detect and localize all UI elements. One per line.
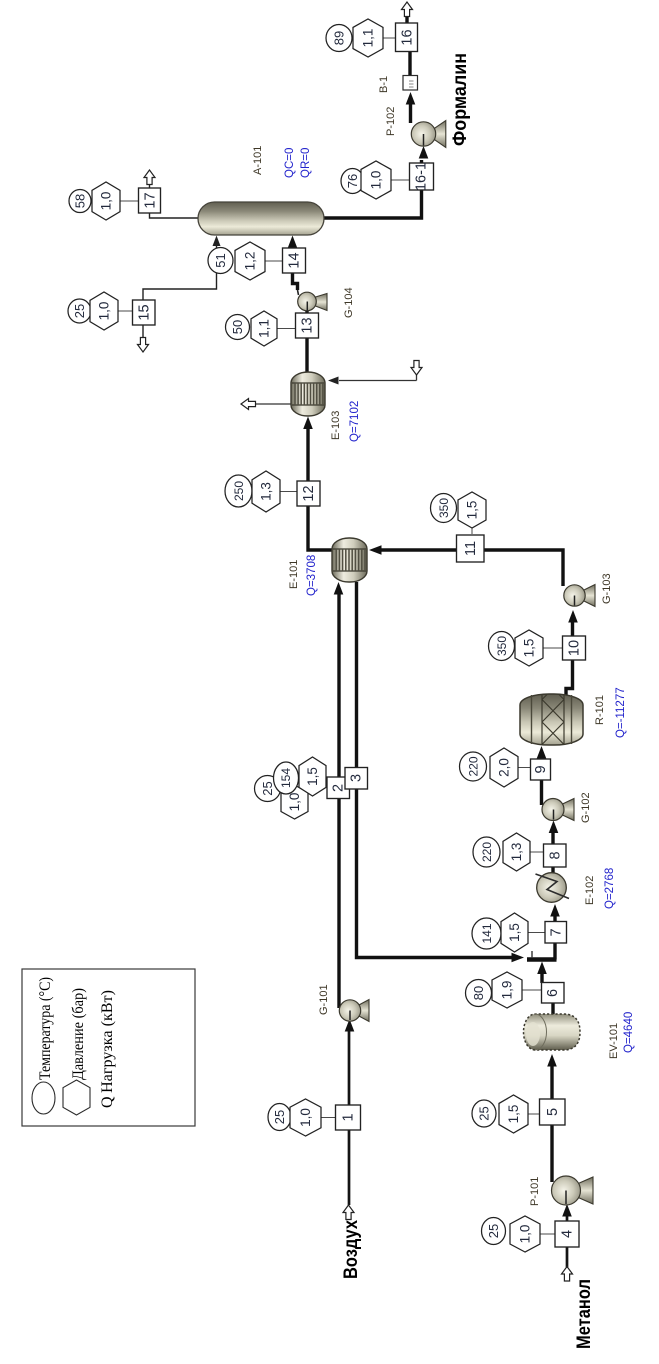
pressure hexagon 2,0 (stream 9): [490, 748, 518, 787]
wire: stream to G-102 after E-102: [549, 821, 559, 875]
svg-text:1: 1: [341, 1113, 357, 1121]
wire: stream 10 R-101 to G-103: [566, 610, 578, 695]
svg-text:Q=4640: Q=4640: [623, 1012, 635, 1053]
wire: stream 15 reflux into column: [143, 236, 221, 301]
svg-text:51: 51: [213, 253, 228, 267]
pump G-104: [298, 292, 327, 311]
svg-text:16: 16: [400, 29, 416, 45]
compressor G-101: [339, 1000, 369, 1022]
wire: stream 15 vent line from box: [138, 325, 149, 352]
svg-text:A-101: A-101: [252, 146, 264, 175]
wire: stream 11 G-103 to E-101 shell inlet: [369, 545, 563, 586]
temperature circle 154 (stream 2): [274, 762, 299, 794]
temperature circle 25 (stream 3): [255, 776, 281, 802]
svg-text:QR=0: QR=0: [300, 148, 312, 178]
stream box 8: [544, 844, 567, 867]
temperature circle 25 (stream 4): [482, 1218, 506, 1245]
pressure hexagon 1,5 (stream 7): [501, 913, 528, 952]
svg-text:76: 76: [345, 174, 360, 188]
wire: stream 6 EV-101 to junction: [537, 962, 553, 1015]
svg-text:50: 50: [230, 320, 245, 334]
svg-text:25: 25: [72, 304, 87, 318]
compressor G-103: [564, 585, 595, 607]
wire: mixed stream 7 junction to E-102: [550, 904, 560, 960]
svg-text:9: 9: [533, 765, 549, 773]
svg-text:25: 25: [260, 781, 275, 795]
methanol feed open arrow glyph: [562, 1267, 573, 1282]
svg-text:2,0: 2,0: [497, 758, 512, 777]
stream box 16-1: [410, 162, 434, 191]
svg-text:350: 350: [437, 498, 451, 518]
svg-text:220: 220: [467, 756, 481, 776]
svg-text:1,0: 1,0: [97, 302, 112, 321]
svg-text:G-104: G-104: [343, 287, 355, 318]
stream box 6: [542, 983, 565, 1004]
svg-text:Нагрузка (кВт): Нагрузка (кВт): [99, 990, 116, 1093]
svg-text:E-102: E-102: [584, 876, 596, 905]
pressure hexagon 1,0 (stream 17): [92, 182, 120, 220]
wire: stream 2 G-101 to E-101: [334, 582, 344, 1008]
junction bar node: [527, 951, 557, 960]
stream box 9: [531, 759, 551, 780]
stream box 7: [545, 922, 567, 944]
svg-text:25: 25: [477, 1106, 492, 1120]
label connector lines: [118, 38, 563, 1234]
svg-text:1,5: 1,5: [507, 923, 522, 942]
svg-text:G-101: G-101: [318, 984, 330, 1015]
svg-text:141: 141: [480, 923, 494, 943]
temperature circle 51 (stream 14): [208, 248, 233, 274]
temperature circle 50 (stream 13): [226, 315, 250, 340]
wire: B-1 to stream 16: [408, 51, 411, 76]
wire: stream 5 P-101 to EV-101: [547, 1054, 557, 1182]
wire: stream 9 G-102 to R-101: [537, 746, 547, 805]
pressure hexagon 1,0 (stream 4): [510, 1216, 540, 1252]
pressure hexagon 1,3 (stream 8): [503, 833, 530, 871]
svg-text:7: 7: [549, 928, 565, 936]
stream box 2: [327, 777, 350, 799]
svg-text:1,0: 1,0: [298, 1108, 313, 1127]
svg-text:1,5: 1,5: [522, 639, 537, 658]
wire: stream 16 to formalin product vent: [402, 2, 413, 23]
svg-text:Температура (°С): Температура (°С): [37, 977, 54, 1080]
svg-text:10: 10: [567, 640, 583, 656]
svg-text:QC=0: QC=0: [284, 148, 296, 178]
svg-text:1,5: 1,5: [506, 1105, 521, 1124]
svg-text:P-101: P-101: [529, 1177, 541, 1206]
svg-text:1,3: 1,3: [259, 482, 274, 501]
temperature circle 350 (stream 10): [489, 632, 515, 661]
svg-text:G-102: G-102: [580, 792, 592, 823]
svg-text:11: 11: [463, 541, 479, 556]
svg-text:E-103: E-103: [330, 411, 342, 440]
temperature circle 58 (stream 17): [69, 190, 91, 213]
temperature circle 25 (stream 15): [68, 299, 91, 323]
svg-text:1,3: 1,3: [509, 843, 524, 862]
pressure hexagon 1,0 (stream 16-1): [361, 161, 391, 199]
pressure hexagon 1,0 (stream 15): [90, 292, 118, 330]
valve B-1: [403, 76, 418, 91]
temperature circle 25 (stream 5): [472, 1100, 496, 1127]
heat exchanger E-101: [332, 538, 367, 582]
stream box 4: [555, 1221, 579, 1247]
svg-text:E-101: E-101: [288, 560, 300, 589]
legend pressure hexagon: [63, 1080, 90, 1115]
svg-text:58: 58: [73, 194, 88, 208]
evaporator EV-101: [524, 1014, 581, 1050]
stream box 15: [133, 300, 156, 325]
pressure hexagon 1,9 (stream 6): [492, 972, 522, 1008]
pressure hexagon 1,2 (stream 14): [235, 242, 265, 280]
temperature circle 25 (stream 1): [268, 1104, 291, 1131]
wire: E-103 cooling utility inlet: [328, 361, 422, 385]
svg-text:1,2: 1,2: [243, 252, 258, 271]
pressure hexagon 1,5 (stream 10): [515, 630, 543, 666]
legend frame: [22, 969, 195, 1126]
wire: stream 13 E-103 to G-104: [305, 310, 308, 373]
stream box 1: [336, 1105, 361, 1130]
wire: E-103 cooling utility outlet vent: [241, 399, 291, 410]
svg-text:14: 14: [287, 252, 303, 268]
stream box 10: [563, 636, 586, 660]
wire: air feed to G-101 (stream 1): [345, 1019, 355, 1205]
svg-text:Q=7102: Q=7102: [349, 401, 361, 442]
svg-text:1,9: 1,9: [500, 981, 515, 1000]
pressure hexagon 1,3 (stream 12): [252, 471, 280, 512]
svg-text:Q=-11277: Q=-11277: [615, 687, 627, 738]
svg-text:6: 6: [545, 989, 561, 997]
svg-text:Давление (бар): Давление (бар): [70, 988, 87, 1080]
pump P-101: [552, 1176, 594, 1205]
svg-text:1,1: 1,1: [361, 29, 376, 48]
distillation column A-101: [198, 202, 324, 235]
svg-text:1,5: 1,5: [305, 767, 320, 786]
reactor R-101: [520, 694, 583, 745]
stream box 5: [540, 1099, 566, 1125]
svg-text:1,5: 1,5: [465, 501, 480, 520]
svg-text:13: 13: [300, 317, 316, 333]
wire: stream 16-1 column bottoms to P-102: [324, 146, 428, 218]
svg-text:EV-101: EV-101: [608, 1023, 620, 1059]
wire: stream 17 column overhead: [144, 170, 198, 218]
svg-text:89: 89: [332, 31, 347, 45]
pressure hexagon 1,5 (stream 2): [299, 757, 326, 796]
svg-text:1,1: 1,1: [257, 319, 272, 338]
svg-text:350: 350: [495, 636, 509, 656]
pressure hexagon 1,5 (stream 11): [458, 492, 486, 528]
svg-text:Q=2768: Q=2768: [604, 868, 616, 909]
temperature circle 80 (stream 6): [466, 980, 492, 1007]
svg-text:25: 25: [272, 1110, 287, 1124]
svg-text:Метанол: Метанол: [574, 1279, 595, 1349]
temperature circle 89 (stream 16): [326, 25, 352, 52]
pressure hexagon 1,1 (stream 16): [353, 19, 383, 57]
stream box 16: [396, 23, 418, 52]
svg-text:4: 4: [560, 1230, 576, 1238]
svg-text:R-101: R-101: [594, 695, 606, 725]
svg-text:80: 80: [471, 986, 486, 1000]
stream box 17: [139, 188, 161, 213]
svg-text:250: 250: [232, 481, 246, 501]
svg-text:220: 220: [480, 842, 494, 862]
svg-text:17: 17: [143, 192, 159, 208]
stream box 13: [296, 313, 319, 338]
svg-text:25: 25: [486, 1224, 501, 1238]
wire: methanol feed to P-101 (stream 4): [562, 1204, 572, 1267]
wire: stream 12 E-101 to E-103: [303, 417, 333, 551]
temperature circle 141 (stream 7): [472, 918, 501, 949]
svg-text:8: 8: [548, 851, 564, 859]
air feed open arrow glyph: [343, 1205, 354, 1220]
pressure hexagon hidden (stream 3): [281, 785, 308, 819]
temperature circle 220 (stream 9): [460, 752, 487, 781]
temperature circle 350 (stream 11): [431, 494, 457, 523]
svg-text:G-103: G-103: [601, 573, 613, 604]
svg-text:15: 15: [137, 304, 153, 320]
stream box 12: [297, 481, 320, 506]
heater E-102: [536, 873, 570, 903]
svg-text:B-1: B-1: [378, 76, 390, 93]
wire: stream 14 G-104 to column A-101: [288, 236, 299, 296]
svg-text:1,0: 1,0: [369, 171, 384, 190]
compressor G-102: [542, 799, 574, 821]
svg-text:Воздух: Воздух: [341, 1220, 362, 1279]
wire: stream 3 E-101 to mixer junction: [357, 582, 525, 962]
wire: P-102 to valve B-1: [406, 92, 416, 123]
cooler E-103: [291, 372, 325, 416]
pressure hexagon 1,1 (stream 13): [251, 311, 277, 346]
svg-text:2: 2: [331, 784, 347, 792]
temperature circle 76 (stream 16-1): [341, 169, 364, 194]
svg-text:Q: Q: [99, 1096, 116, 1108]
svg-text:16-1: 16-1: [414, 162, 430, 191]
pressure hexagon 1,5 (stream 5): [499, 1095, 528, 1133]
stream box 11: [457, 535, 485, 562]
svg-text:Q=3708: Q=3708: [306, 555, 318, 596]
stream box 14: [283, 248, 306, 273]
svg-text:5: 5: [545, 1108, 561, 1116]
pressure hexagon 1,0 (stream 1): [290, 1099, 321, 1136]
svg-text:3: 3: [349, 774, 365, 782]
svg-text:P-102: P-102: [385, 107, 397, 136]
svg-text:154: 154: [279, 768, 293, 788]
temperature circle 250 (stream 12): [225, 475, 252, 507]
svg-text:1,0: 1,0: [287, 793, 302, 812]
stream box 3: [345, 768, 368, 790]
svg-text:1,0: 1,0: [518, 1225, 533, 1244]
svg-text:1,0: 1,0: [99, 192, 114, 211]
svg-text:12: 12: [301, 485, 317, 501]
pump P-102: [411, 121, 446, 148]
temperature circle 220 (stream 8): [473, 837, 500, 867]
svg-text:Формалин: Формалин: [450, 53, 471, 146]
legend temperature ellipse: [32, 1082, 55, 1114]
